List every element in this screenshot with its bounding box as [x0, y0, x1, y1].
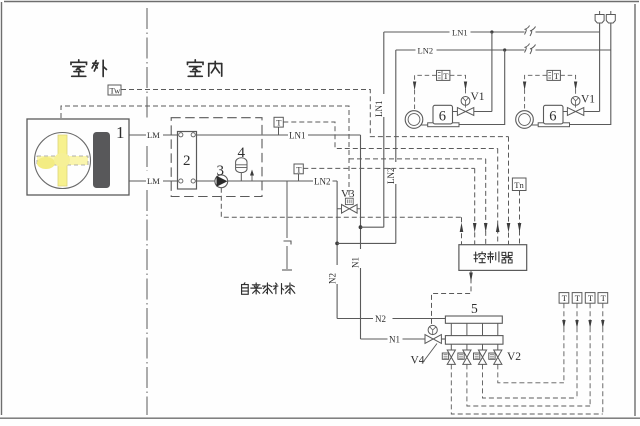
- valve V3 on bypass stub between risers: [337, 188, 360, 213]
- Tn room sensor box: [512, 178, 526, 191]
- valve V1 of FCU1: [453, 91, 492, 115]
- svg-text:3: 3: [217, 163, 225, 179]
- arrows on zone sensor drops: [562, 320, 604, 329]
- junction node on LN2 for FCU1 return: [503, 48, 506, 51]
- FCU1 supply riser from LN1 to V1: [491, 32, 493, 112]
- N1 riser (LN1 pipe turns down) with rotated inline label: [360, 135, 362, 339]
- T sensor on LN1: [274, 117, 283, 135]
- svg-text:T: T: [562, 293, 568, 303]
- control bus from pump 3 to controller arrow 1: [221, 188, 461, 218]
- svg-text:T: T: [276, 118, 282, 128]
- T1 sensor dashed line to controller arrow 4: [283, 122, 497, 149]
- N1 horizontal run to valve V4: [361, 338, 426, 340]
- svg-text:V1: V1: [581, 94, 595, 106]
- svg-text:LN2: LN2: [386, 168, 396, 185]
- Tw sensor box: [108, 85, 121, 96]
- svg-text:LN2: LN2: [314, 177, 331, 187]
- svg-text:N2: N2: [327, 273, 337, 284]
- svg-text:LM: LM: [147, 176, 160, 186]
- plate heat exchanger 2: [178, 132, 197, 190]
- fan blades (yellow cross): [37, 135, 88, 186]
- break mark LN2: [525, 44, 536, 55]
- svg-text:LN1: LN1: [374, 101, 384, 118]
- fan coil unit 6 (FCU2): [516, 105, 570, 128]
- LN1 pipe from HX to riser: [197, 134, 361, 136]
- valve V4 with pump actuator on N1 line: [411, 325, 446, 366]
- svg-text:LN1: LN1: [289, 131, 306, 141]
- label 室内 (indoor): [187, 60, 221, 76]
- LN2 top header pipe with break symbol: [396, 49, 611, 51]
- node A: junction on N1 riser to LN1 riser: [359, 225, 363, 229]
- svg-text:V3: V3: [341, 188, 355, 200]
- condenser dark slab: [93, 132, 110, 188]
- fan coil unit 6 (FCU1): [405, 105, 459, 128]
- svg-text:T: T: [575, 293, 581, 303]
- svg-text:6: 6: [439, 108, 446, 124]
- manifold 5 (two headers): [445, 301, 503, 344]
- svg-text:T: T: [601, 293, 607, 303]
- branch from unit1/V3 control line to controller arrow 3: [349, 158, 486, 160]
- svg-text:T: T: [588, 293, 594, 303]
- svg-text:T: T: [554, 71, 560, 81]
- dashed enclosure around indoor hydronic module: [171, 118, 262, 197]
- controller output to valve V4: [432, 270, 472, 325]
- svg-text:Tn: Tn: [514, 180, 524, 190]
- expansion tank 4: [236, 145, 247, 181]
- LN2 riser (up to top header) with rotated inline label: [395, 50, 397, 243]
- svg-text:2: 2: [183, 153, 191, 169]
- small flow arrow near tank: [250, 170, 254, 182]
- svg-text:N2: N2: [375, 314, 386, 324]
- LN1 riser (up to top header) with rotated inline label: [383, 32, 385, 227]
- label 自来水补水: [242, 283, 295, 295]
- svg-text:V2: V2: [507, 351, 521, 363]
- tap water make-up line: [282, 181, 292, 270]
- air vent cup 2: [606, 11, 615, 23]
- thermostat wiring FCU2: [525, 75, 547, 110]
- controller U1 box: [459, 245, 527, 271]
- svg-text:N1: N1: [351, 257, 361, 268]
- svg-text:V1: V1: [471, 91, 485, 103]
- LN1 top header pipe with break symbol: [384, 31, 600, 33]
- room thermostat of FCU1: [437, 70, 450, 80]
- svg-text:6: 6: [549, 108, 556, 124]
- fan circle: [35, 133, 91, 189]
- room thermostat of FCU2: [547, 70, 560, 80]
- controller input risers with arrows: [462, 137, 520, 245]
- zone T sensors (x4) at right: [559, 293, 608, 304]
- FCU2 return riser to LN2 and up to vent cup: [570, 24, 611, 125]
- outdoor unit 1 (air-source heat pump): [27, 119, 129, 195]
- label 室外 (outdoor): [71, 60, 107, 77]
- node B: junction on N2 riser to LN2 riser: [335, 242, 339, 246]
- pump 3 on LN2 pipe: [215, 163, 228, 188]
- dashed control line: Tw to controller arrow5 (via y=89.5, y=136.6): [121, 90, 509, 137]
- thermostat wiring FCU1 (to fan and to V1): [415, 75, 437, 110]
- svg-text:V4: V4: [411, 355, 425, 367]
- svg-text:N1: N1: [389, 334, 400, 344]
- dashed control line: unit1 top to V3 (via y=106): [61, 106, 349, 197]
- svg-text:4: 4: [238, 145, 246, 161]
- junction node on LN1 for FCU1: [490, 30, 493, 33]
- svg-text:Tw: Tw: [110, 86, 122, 96]
- svg-text:T: T: [443, 71, 449, 81]
- indoor/outdoor divider (dash-dot line): [146, 8, 148, 415]
- valve V1 of FCU2: [563, 94, 600, 116]
- N2 riser (from LN2 pipe down) with rotated inline label: [336, 181, 338, 319]
- LM pipe (bottom) unit1 to HX: [129, 180, 178, 182]
- T2 sensor dashed line to controller arrow 2: [303, 167, 474, 169]
- svg-text:LM: LM: [147, 130, 160, 140]
- svg-text:LN1: LN1: [452, 27, 468, 37]
- svg-text:5: 5: [471, 301, 478, 316]
- svg-text:1: 1: [116, 123, 125, 142]
- FCU1 return riser to LN2: [459, 50, 505, 125]
- dashed links valves V2 to zone sensors: [451, 303, 603, 414]
- T sensor on LN2: [294, 164, 303, 181]
- break mark LN1: [525, 26, 536, 37]
- LN2 pipe from HX to N2 riser corner: [197, 180, 338, 182]
- LM pipe (top) unit1 to HX: [129, 134, 178, 136]
- svg-text:T: T: [296, 164, 302, 174]
- zone valves V2 (x4) under lower header: [442, 344, 521, 364]
- air vent cup 1: [595, 11, 604, 23]
- FCU2 supply riser from LN1 to V1 and up to vent cup: [599, 24, 601, 112]
- svg-text:LN2: LN2: [418, 45, 434, 55]
- N2 horizontal run to manifold top bar: [337, 318, 445, 320]
